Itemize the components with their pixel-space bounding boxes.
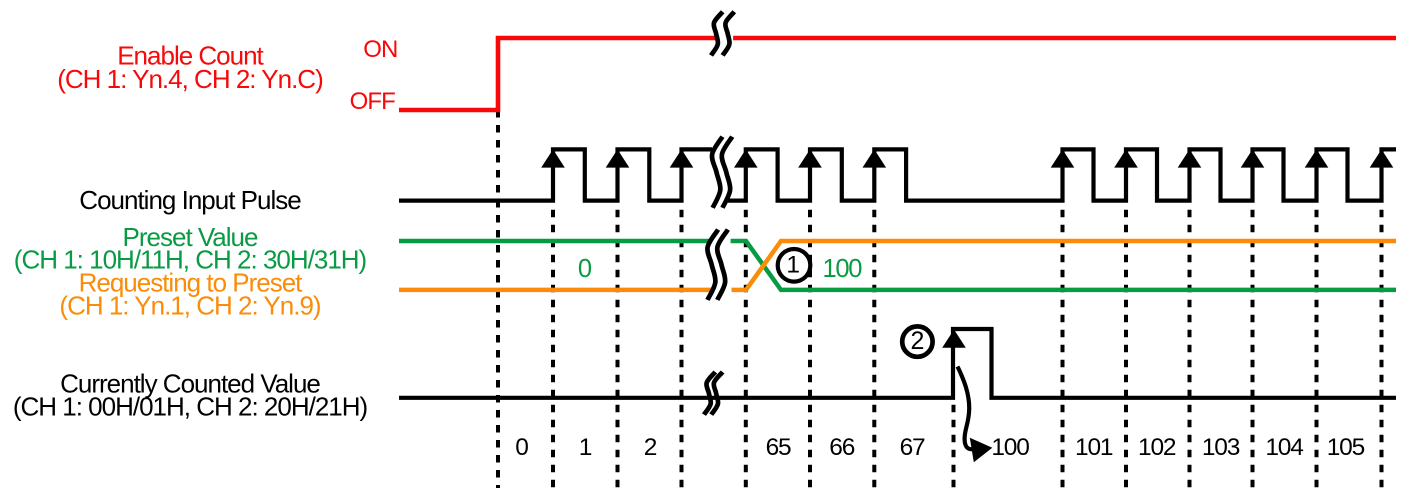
svg-text:2: 2: [910, 327, 924, 355]
svg-text:2: 2: [644, 434, 657, 461]
svg-text:104: 104: [1265, 434, 1303, 461]
svg-text:100: 100: [991, 434, 1029, 461]
svg-text:66: 66: [829, 434, 854, 461]
svg-text:Counting Input Pulse: Counting Input Pulse: [79, 185, 301, 215]
svg-text:(CH 1: 00H/01H, CH 2: 20H/21H): (CH 1: 00H/01H, CH 2: 20H/21H): [13, 391, 368, 421]
svg-text:ON: ON: [363, 36, 397, 63]
svg-text:105: 105: [1327, 434, 1365, 461]
svg-text:100: 100: [823, 255, 863, 283]
svg-text:103: 103: [1202, 434, 1240, 461]
svg-text:0: 0: [578, 255, 592, 283]
svg-text:(CH 1: Yn.4, CH 2: Yn.C): (CH 1: Yn.4, CH 2: Yn.C): [57, 64, 323, 94]
svg-text:101: 101: [1075, 434, 1113, 461]
svg-text:0: 0: [515, 434, 528, 461]
svg-text:1: 1: [786, 251, 800, 278]
svg-text:1: 1: [579, 434, 592, 461]
svg-text:67: 67: [900, 434, 925, 461]
svg-text:65: 65: [766, 434, 791, 461]
svg-text:102: 102: [1138, 434, 1176, 461]
svg-text:(CH 1: Yn.1, CH 2: Yn.9): (CH 1: Yn.1, CH 2: Yn.9): [59, 290, 321, 320]
svg-text:OFF: OFF: [350, 88, 396, 115]
